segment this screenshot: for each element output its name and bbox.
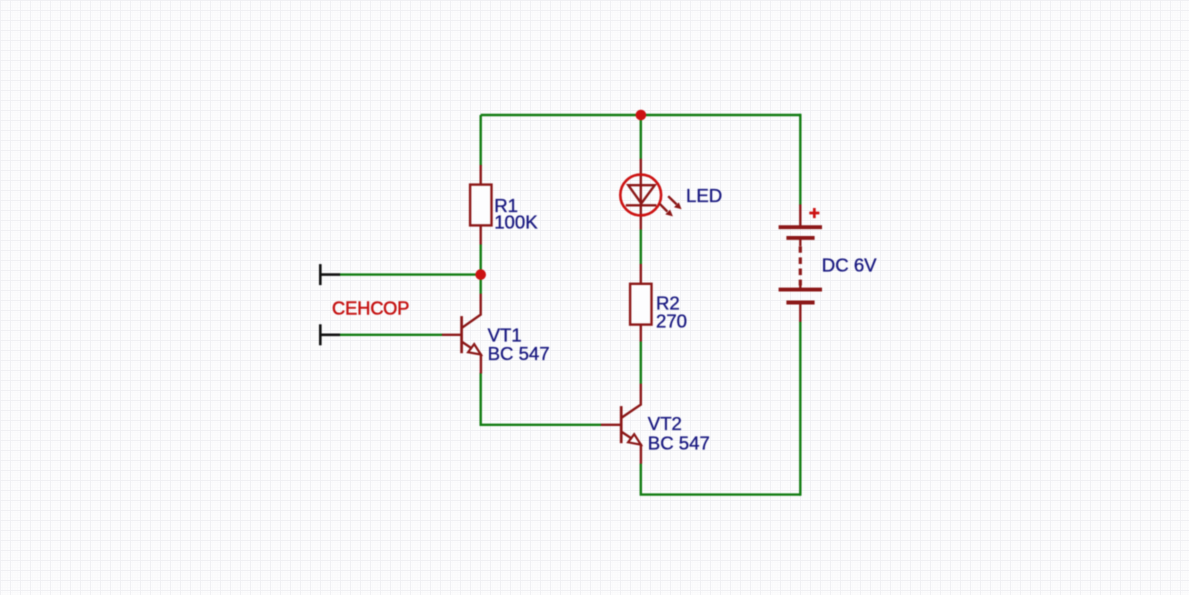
battery plus sign [809,208,819,218]
svg-text:СЕНСОР: СЕНСОР [332,299,409,319]
label R1 100K [494,195,538,233]
svg-text:BC 547: BC 547 [648,432,710,453]
LED D1 [620,159,681,230]
wire LED to R2 [640,229,642,264]
svg-text:DC 6V: DC 6V [822,255,877,276]
svg-text:270: 270 [656,311,687,332]
wire R1 top [480,115,482,166]
label VT1 BC 547 [488,324,550,364]
label VT2 BC 547 [648,413,710,453]
wire LED top [640,115,642,160]
battery BT1 DC 6V [779,205,822,322]
wire VT2 emitter to bottom rail [641,464,801,495]
wire right rail upper (battery +) [799,114,801,206]
sensor plate 2 (touch terminal) [319,324,340,345]
svg-text:100K: 100K [494,212,538,233]
transistor VT2 [601,384,641,464]
resistor R1 [470,165,491,245]
wire R2 to VT2 collector [640,341,642,384]
svg-text:VT2: VT2 [648,413,682,434]
resistor R2 [630,264,651,342]
wire top rail [481,114,801,116]
svg-text:LED: LED [686,185,722,206]
transistor VT1 [442,294,481,374]
junction node R1 / sensor / VT1 [475,269,486,280]
junction node top rail / LED [636,110,647,121]
label R2 270 [656,292,687,331]
wire sensor plate 2 to VT1 base [339,334,443,336]
wire R1 bottom to VT1 collector [480,244,482,294]
sensor plate 1 (touch terminal) [319,264,340,285]
wire sensor plate 1 to junction [339,273,481,275]
svg-text:BC 547: BC 547 [488,343,550,364]
wire VT1 emitter to VT2 base [481,373,601,425]
wire right rail lower (battery -) [799,321,801,496]
